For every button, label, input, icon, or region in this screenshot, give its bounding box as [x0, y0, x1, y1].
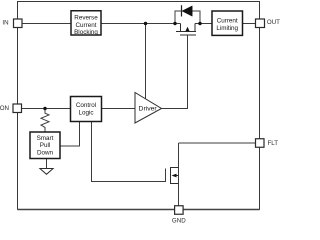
resistor R1: [41, 109, 49, 133]
wire Q2 drain-source vertical to GND: [178, 143, 180, 206]
wire Current Limiting to OUT: [243, 23, 256, 25]
block Current Limiting: [212, 11, 243, 35]
svg-text:Smart: Smart: [37, 135, 54, 142]
wire Control Logic to Q2 gate: [92, 122, 166, 182]
wire driver supply from rail: [145, 24, 147, 99]
wire diode D1 cathode to rail: [175, 11, 182, 24]
svg-text:Current: Current: [217, 17, 238, 24]
svg-text:Reverse: Reverse: [74, 15, 98, 22]
block Smart Pull Down: [30, 132, 60, 159]
pin GND: [172, 206, 186, 225]
pin FLT: [256, 139, 279, 148]
svg-text:IN: IN: [2, 19, 8, 26]
svg-text:Pull: Pull: [40, 142, 51, 149]
wire diode D1 anode to rail: [192, 11, 200, 24]
node ON-resistor junction: [43, 107, 46, 110]
op-amp U1 Driver: [135, 93, 162, 124]
svg-text:OUT: OUT: [267, 19, 280, 26]
diode D1: [182, 5, 193, 16]
pin IN: [2, 19, 22, 28]
svg-text:FLT: FLT: [268, 140, 279, 147]
svg-text:Blocking: Blocking: [74, 29, 98, 36]
pin ON: [0, 104, 22, 113]
block Reverse Current Blocking: [71, 11, 101, 36]
svg-text:Limiting: Limiting: [216, 25, 238, 32]
wire Smart Pull Down to ground: [46, 159, 48, 169]
block Control Logic: [71, 97, 102, 122]
wire IN to Reverse Current Blocking: [22, 23, 71, 25]
device outline: [18, 2, 260, 210]
node rail-diode anode junction: [198, 22, 201, 25]
wire Smart Pull Down to Control Logic: [60, 122, 80, 147]
svg-text:GND: GND: [172, 218, 186, 225]
wire Driver output to Q1 gate: [162, 35, 188, 109]
svg-text:Down: Down: [37, 150, 54, 157]
svg-text:ON: ON: [0, 105, 9, 112]
pin OUT: [256, 19, 281, 28]
svg-text:Logic: Logic: [78, 109, 93, 116]
node rail-diode cathode junction: [173, 22, 176, 25]
wire Q1 drain to Current Limiting: [195, 23, 212, 25]
ground: [40, 169, 53, 175]
wire FLT to Q2 drain: [179, 142, 256, 144]
svg-text:Driver: Driver: [139, 106, 158, 113]
transistor Q1 pass FET: [176, 24, 196, 36]
svg-text:Control: Control: [76, 102, 96, 109]
wire Control Logic to Driver: [102, 108, 136, 110]
node rail-driver junction: [144, 22, 147, 25]
svg-text:Current: Current: [76, 22, 97, 29]
transistor Q2 fault FET: [171, 167, 179, 184]
wire Reverse Current Blocking to Q1 source: [101, 23, 181, 25]
wire ON to Control Logic: [22, 108, 71, 110]
